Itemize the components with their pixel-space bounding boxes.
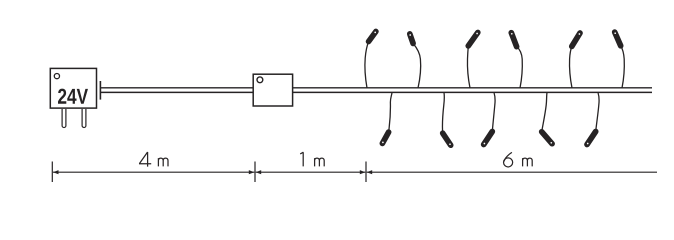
lamp L4 stem: [517, 47, 523, 88]
wire W1 top conductor (supply to connector): [101, 87, 254, 89]
lamp L8 bulb: [443, 133, 451, 145]
wire W2 bottom conductor: [293, 91, 652, 93]
lamp L1 bulb: [369, 32, 376, 42]
power supply indicator circle: [54, 74, 59, 79]
mains plug pin 2: [82, 109, 86, 127]
dimension tick 2: [254, 162, 256, 183]
dimension line 1m: [256, 170, 366, 174]
lamp L5 bulb: [572, 33, 580, 46]
label 4 m: [139, 152, 168, 167]
lamp L1 stem: [365, 42, 369, 89]
dimension line 6m: [367, 170, 657, 174]
lamp L3 bulb: [468, 33, 478, 46]
dimension tick 3: [365, 162, 367, 183]
DC plug bar: [99, 81, 101, 100]
mains plug pin 1: [62, 109, 66, 127]
lamp L2 stem: [413, 43, 421, 88]
lamp L9 stem (below): [492, 93, 495, 132]
wire W2 top conductor (lamp string): [293, 87, 652, 89]
lamp L2 bulb: [409, 34, 413, 44]
wire W1 bottom conductor: [101, 91, 254, 93]
lamp L7 bulb: [382, 132, 389, 143]
lamp L10 bulb: [542, 132, 552, 144]
label 1 m: [300, 152, 324, 166]
lamp L11 bulb: [587, 132, 596, 145]
dimension tick 1: [51, 162, 53, 183]
lamp L6 bulb: [614, 32, 620, 46]
lamp L7 stem (below): [389, 93, 392, 133]
lamp L4 bulb: [511, 33, 517, 47]
label 6 m: [504, 152, 533, 167]
lamp L5 stem: [570, 46, 572, 88]
lamp L8 stem (below): [442, 93, 444, 134]
connector box indicator circle: [257, 77, 263, 83]
lamp L10 stem (below): [542, 93, 547, 132]
connector box J1: [253, 74, 292, 106]
power supply U1 (24V adapter body): [50, 68, 96, 108]
lamp L6 stem: [621, 46, 625, 88]
lamp L9 bulb: [484, 132, 493, 145]
lamp L11 stem (below): [596, 93, 599, 132]
label 24V: [58, 89, 88, 104]
lamp L3 stem: [467, 46, 470, 88]
dimension line 4m: [53, 170, 254, 174]
